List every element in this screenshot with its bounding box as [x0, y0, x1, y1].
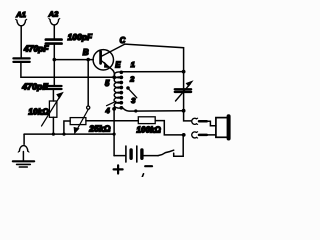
svg-text:2: 2	[129, 74, 135, 83]
svg-text:4: 4	[105, 106, 110, 115]
potentiometer 25k	[64, 109, 111, 134]
node 10k-bottom	[52, 133, 55, 136]
bottom wire	[24, 133, 114, 135]
capacitor 470pF (A1)	[13, 45, 49, 62]
phones connector upper	[192, 118, 216, 125]
svg-text:25kΩ: 25kΩ	[88, 124, 111, 134]
svg-text:B: B	[83, 48, 89, 57]
wire A2 rail down	[53, 60, 55, 85]
tap 1 wire	[122, 71, 184, 73]
transistor Q1	[83, 36, 126, 70]
battery	[114, 146, 158, 162]
svg-text:3: 3	[131, 96, 136, 105]
wire base to pot wiper	[87, 60, 89, 106]
node base-wiper junction	[86, 58, 90, 62]
phones connector lower	[192, 132, 216, 138]
ground connector cup	[19, 146, 27, 152]
svg-text:1: 1	[131, 60, 135, 69]
node battery-bottom	[113, 133, 116, 136]
tap 4 leader	[107, 101, 117, 105]
antenna A2	[48, 10, 60, 25]
wire 100k to phones	[155, 121, 184, 135]
ground	[13, 161, 34, 167]
node rail-tap3	[182, 109, 186, 113]
wire cap to 10k	[52, 89, 54, 101]
svg-text:100kΩ: 100kΩ	[137, 126, 161, 135]
wire C1 to tap5 rail	[21, 63, 114, 77]
emitter wire to coil	[112, 70, 114, 75]
wire 25k to 100k	[86, 120, 138, 122]
wire coil bottom to battery	[113, 109, 115, 156]
node rail-tap1	[182, 70, 186, 74]
node phones-lower junction	[182, 133, 186, 137]
resistor 100k	[137, 117, 161, 135]
pot wiper terminal circle	[87, 106, 90, 109]
capacitor 470pF (bypass)	[21, 81, 61, 91]
battery minus	[145, 165, 152, 167]
svg-text:10kΩ: 10kΩ	[28, 107, 49, 116]
svg-text:A2: A2	[48, 10, 60, 19]
resistor 10k (preset)	[28, 92, 63, 126]
node tap5 junction	[112, 76, 115, 79]
comma mark	[142, 174, 143, 177]
wire 100pF to base wire	[53, 45, 55, 60]
svg-text:470pF: 470pF	[23, 45, 49, 54]
node coil bottom (tap 4)	[112, 107, 116, 111]
svg-text:A1: A1	[15, 10, 26, 19]
wire A1 stem	[20, 26, 22, 58]
svg-text:E: E	[115, 61, 121, 70]
wire base	[54, 59, 93, 61]
ground plug stem	[22, 152, 24, 161]
wire 10k to bottom rail	[52, 117, 54, 134]
node 25k-bottom	[62, 133, 65, 136]
coil L1	[114, 70, 123, 109]
tuning capacitor	[175, 80, 194, 101]
svg-text:5: 5	[105, 79, 110, 88]
collector wire	[125, 44, 191, 121]
ground lead	[23, 134, 25, 144]
earphone	[216, 116, 229, 138]
tap 2 selector	[126, 74, 137, 105]
capacitor 100pF	[46, 33, 93, 44]
switch	[158, 135, 183, 156]
node on tap3 wire	[134, 109, 137, 112]
node base-A2 junction	[53, 58, 57, 62]
wire A2 stem	[53, 25, 55, 38]
battery plus	[114, 165, 123, 173]
svg-text:100pF: 100pF	[68, 33, 93, 42]
tap 3 wire	[122, 107, 184, 111]
antenna A1	[15, 10, 27, 26]
